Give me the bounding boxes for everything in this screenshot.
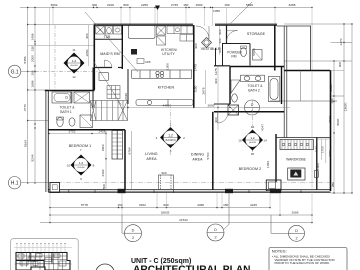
bottom wall piers [118, 189, 282, 193]
svg-text:3: 3 [170, 149, 172, 153]
maid block right wall [121, 25, 123, 69]
svg-text:1475: 1475 [194, 64, 198, 71]
svg-text:900: 900 [194, 43, 198, 48]
svg-text:1,2: 1,2 [72, 59, 77, 63]
svg-text:NOTES:: NOTES: [272, 249, 287, 254]
svg-text:1,2: 1,2 [79, 161, 84, 165]
svg-text:2735: 2735 [171, 3, 178, 7]
svg-text:1686: 1686 [31, 80, 35, 87]
svg-text:STORAGE: STORAGE [247, 32, 266, 36]
interior vertical dims mid [206, 67, 219, 131]
wardrobe dim lines [317, 139, 330, 163]
diagonal leader 1 [85, 12, 138, 72]
left outer wall lower [45, 91, 47, 193]
vestibule right dims [218, 29, 222, 52]
wardrobe dims [266, 145, 332, 170]
corridor cabinet [99, 73, 108, 81]
svg-text:8697: 8697 [336, 118, 340, 125]
storage door arc [227, 31, 238, 42]
svg-text:2770: 2770 [23, 104, 27, 111]
grid bubble G.1 [8, 65, 98, 77]
centerline through diamond4 [252, 100, 254, 155]
right nook box [314, 171, 318, 178]
vestibule [196, 26, 221, 51]
shower tb1 top [74, 92, 90, 103]
svg-text:5700: 5700 [206, 152, 210, 159]
svg-text:(6-6.00: (6-6.00 [78, 167, 86, 169]
maid tb wall [95, 38, 123, 40]
svg-text:1050: 1050 [213, 9, 220, 13]
svg-text:4047: 4047 [261, 124, 265, 131]
left dimension lines [28, 8, 93, 184]
key plan extension ticks [14, 243, 72, 264]
kitchen utility room [128, 26, 193, 64]
svg-text:D: D [132, 229, 135, 233]
svg-text:LIVING: LIVING [145, 152, 157, 156]
maid tb fixtures row [96, 26, 122, 34]
bedroom2 door arc [218, 113, 229, 124]
top dimension line [20, 7, 312, 9]
svg-text:(6-6.00: (6-6.00 [71, 65, 79, 67]
bottom dim row C [40, 222, 312, 224]
wardrobe right wall [316, 138, 318, 190]
bedroom2 corner column [266, 180, 281, 191]
corridor shelf grid [107, 86, 120, 99]
diamond callout 3 [67, 148, 95, 181]
interior dim line horizontal [90, 107, 290, 109]
svg-text:4460: 4460 [197, 203, 204, 207]
right wing inner wall [270, 26, 344, 138]
bottom outer wall with windows [48, 190, 330, 193]
section line extension [157, 10, 159, 25]
tb2 top wall [230, 66, 284, 68]
svg-text:2: 2 [132, 236, 134, 240]
vestibule entry arc [196, 26, 209, 39]
svg-text:900: 900 [218, 29, 222, 34]
svg-text:1453: 1453 [266, 161, 270, 168]
svg-text:AREA: AREA [146, 157, 157, 161]
svg-text:420: 420 [218, 38, 222, 43]
svg-text:3752: 3752 [69, 130, 76, 134]
right dimension lines [284, 24, 352, 193]
svg-text:MAID'S RM: MAID'S RM [100, 52, 120, 56]
svg-text:1300: 1300 [166, 63, 170, 70]
svg-text:900: 900 [338, 62, 342, 67]
top dimension texts [51, 3, 296, 13]
svg-text:600: 600 [218, 47, 222, 52]
fridge boxes [157, 26, 194, 45]
svg-text:1: 1 [170, 123, 172, 127]
bedroom1 top dim line [49, 133, 106, 135]
tb2 toilet [232, 94, 238, 102]
svg-text:5778: 5778 [81, 203, 88, 207]
svg-text:13: 13 [251, 125, 255, 129]
right rotated dimension texts [328, 38, 348, 187]
svg-text:1500: 1500 [196, 3, 203, 7]
living area label [145, 152, 157, 161]
section arrow top [155, 6, 160, 11]
diamond callout 1 [64, 48, 85, 79]
svg-text:150: 150 [223, 203, 228, 207]
svg-text:2494: 2494 [101, 169, 105, 176]
svg-text:900: 900 [214, 117, 218, 122]
section circle D3 [245, 100, 260, 115]
svg-text:14: 14 [263, 139, 267, 143]
bottom dim row A [50, 207, 270, 209]
svg-text:(6-6.00 6(: (6-6.00 6( [165, 139, 176, 142]
hall closets row [91, 101, 128, 121]
corridor left wall below maid [92, 68, 94, 108]
svg-text:800: 800 [123, 3, 128, 7]
kitchen counter with cooktop [132, 70, 192, 78]
svg-text:12: 12 [72, 75, 76, 79]
tb2 bottom wall [214, 103, 230, 105]
top extension drop lines [53, 8, 312, 71]
bottom extension lines [50, 71, 312, 224]
grid bubble H.1 [8, 177, 330, 189]
maid bed counter [128, 26, 155, 39]
svg-text:7: 7 [80, 148, 82, 152]
window mullions [69, 190, 301, 193]
diamond callout 4 [238, 125, 267, 156]
svg-text:1175: 1175 [214, 68, 218, 75]
section circle D2 mid [207, 193, 229, 241]
svg-text:15: 15 [251, 152, 255, 156]
vestibule diamond marker [202, 38, 212, 48]
ac box [137, 59, 144, 64]
svg-text:2: 2 [183, 136, 185, 140]
svg-text:WARDROBE: WARDROBE [286, 157, 307, 161]
dark appliance box [131, 49, 137, 55]
svg-text:2675: 2675 [202, 87, 206, 94]
svg-text:AREA: AREA [192, 157, 203, 161]
wardrobe top wall [276, 137, 331, 139]
notes box [269, 247, 347, 270]
svg-text:1150: 1150 [194, 85, 198, 92]
section circle D2 left [122, 215, 142, 242]
svg-text:ARCHITECTURAL PLAN: ARCHITECTURAL PLAN [133, 265, 251, 270]
svg-text:3285: 3285 [289, 3, 296, 7]
bedroom2 top wall [214, 111, 284, 113]
key plan box [11, 239, 347, 270]
kitchen vestibule wall [193, 25, 195, 108]
powder left wall [222, 44, 224, 66]
diagonal leader 2 [94, 62, 121, 105]
key plan mini floorplan [16, 253, 70, 270]
interior dim texts [163, 103, 215, 107]
right dimension ticks [333, 23, 352, 193]
storage right wall [274, 25, 276, 71]
maid room bottom wall [94, 67, 113, 69]
svg-text:11: 11 [72, 48, 75, 52]
svg-text:KITCHEN: KITCHEN [158, 85, 175, 89]
svg-text:STOR: STOR [252, 48, 256, 56]
section circle D2 right [271, 215, 305, 241]
tb1 bedroom1 wall [48, 129, 125, 131]
svg-text:4400: 4400 [163, 103, 170, 107]
svg-text:UTILITY: UTILITY [162, 52, 175, 56]
svg-text:4: 4 [156, 136, 158, 140]
storage wall extension [226, 8, 228, 25]
left dim line y45.7 [28, 45, 94, 47]
svg-text:1700: 1700 [321, 146, 325, 153]
svg-text:900: 900 [214, 78, 218, 83]
bedroom1 living wall [124, 130, 126, 190]
dining area label [191, 152, 204, 161]
powder toilet [241, 48, 247, 57]
terrace right wall [310, 26, 312, 71]
maid door arc [105, 60, 113, 68]
tb2 corner shaft [228, 105, 239, 115]
svg-text:2695: 2695 [208, 103, 215, 107]
svg-text:D: D [214, 228, 217, 232]
left wall centerline [54, 25, 56, 90]
svg-text:150: 150 [31, 46, 35, 51]
svg-text:8164: 8164 [24, 140, 28, 147]
top dimension ticks [52, 7, 312, 9]
svg-text:BATH 1: BATH 1 [60, 110, 72, 114]
svg-text:BATH 2: BATH 2 [248, 88, 260, 92]
svg-text:RM: RM [231, 55, 236, 59]
powder room [222, 44, 262, 66]
svg-text:21520: 21520 [179, 218, 188, 222]
toilet tb1 [57, 117, 63, 126]
svg-text:10: 10 [67, 164, 71, 168]
svg-text:1426: 1426 [99, 130, 106, 134]
svg-text:300: 300 [92, 3, 97, 7]
bottom dim row B [50, 214, 312, 216]
toilet bath1 top wall [45, 90, 95, 92]
svg-text:D: D [295, 229, 298, 233]
terrace top wall [277, 25, 311, 27]
left dimension ticks [27, 7, 36, 184]
svg-text:2000: 2000 [31, 55, 35, 62]
powder basin box [253, 50, 263, 61]
svg-text:PRIOR TO THE EXECUTION OF WORK: PRIOR TO THE EXECUTION OF WORK. [275, 261, 331, 265]
svg-text:2250: 2250 [141, 3, 148, 7]
corner column bl [50, 183, 60, 193]
kitchen left wall [127, 69, 129, 104]
centerline through diamond2 [170, 104, 172, 155]
bedroom1 closet hatched [112, 131, 123, 160]
svg-text:150: 150 [183, 3, 188, 7]
svg-text:DINING: DINING [191, 152, 204, 156]
vestibule corridor wall [214, 65, 230, 67]
svg-text:1,2: 1,2 [250, 136, 255, 140]
svg-text:2: 2 [214, 236, 216, 240]
svg-text:950: 950 [331, 182, 335, 187]
kitchen island [136, 100, 193, 106]
svg-text:9: 9 [80, 177, 82, 181]
tb2 left wall [229, 67, 231, 105]
svg-text:16: 16 [238, 139, 242, 143]
svg-text:6764: 6764 [128, 147, 132, 154]
svg-text:13620: 13620 [344, 102, 348, 111]
svg-text:5456: 5456 [23, 56, 27, 63]
title bubble circle [96, 264, 115, 270]
left rotated dimension texts [23, 33, 35, 161]
svg-text:900: 900 [161, 171, 166, 175]
maid block left dims [88, 25, 90, 66]
wardrobe left wall [275, 134, 277, 182]
svg-text:(6-6.00: (6-6.00 [249, 142, 257, 144]
svg-text:5690: 5690 [246, 3, 253, 7]
svg-text:BEDROOM 2: BEDROOM 2 [239, 167, 261, 171]
svg-text:900: 900 [85, 33, 89, 38]
tb2 right wall [281, 67, 283, 105]
svg-text:1496: 1496 [31, 33, 35, 40]
shower tb1 [80, 115, 93, 128]
svg-text:2: 2 [295, 236, 297, 240]
svg-text:2600: 2600 [101, 144, 105, 151]
tb2 shower [231, 80, 240, 93]
svg-text:2436: 2436 [124, 93, 128, 100]
left wall extension line [49, 8, 51, 91]
svg-text:3602: 3602 [51, 3, 58, 7]
svg-text:1,2: 1,2 [168, 133, 173, 137]
tub tb1 [52, 92, 72, 103]
bidet tb1 [69, 118, 75, 126]
svg-text:150: 150 [31, 70, 35, 75]
svg-text:H.1: H.1 [11, 181, 19, 187]
svg-text:4245: 4245 [250, 203, 257, 207]
svg-text:1300: 1300 [316, 163, 320, 170]
svg-text:2106: 2106 [107, 3, 114, 7]
storage door diag [228, 2, 252, 26]
svg-text:G.1: G.1 [11, 69, 19, 75]
svg-text:3150: 3150 [328, 150, 332, 157]
svg-text:900: 900 [163, 203, 168, 207]
svg-text:5244: 5244 [31, 154, 35, 161]
svg-text:500: 500 [102, 184, 106, 189]
svg-text:1470: 1470 [339, 38, 343, 45]
diamond callout 2 [156, 123, 186, 153]
svg-text:3152: 3152 [139, 203, 146, 207]
balcony door recess [158, 175, 173, 190]
tv cabinet [288, 168, 305, 180]
svg-text:AFB: AFB [145, 60, 151, 64]
svg-text:2686: 2686 [292, 211, 299, 215]
right outer wall [284, 71, 331, 192]
svg-text:D: D [251, 103, 254, 107]
svg-text:1150: 1150 [315, 145, 319, 152]
vestibule storage wall [226, 25, 228, 44]
svg-text:1050: 1050 [85, 49, 89, 56]
wardrobe hatched cabinet [280, 140, 314, 150]
tb2 vanity [241, 75, 265, 81]
bedroom1 interior dim [105, 131, 131, 189]
toilet bath 1 [52, 92, 93, 128]
svg-text:18835: 18835 [161, 211, 170, 215]
svg-text:8: 8 [93, 164, 95, 168]
outer wall top (maid block to storage) [94, 24, 278, 90]
tb2 tub [268, 77, 280, 102]
svg-text:150: 150 [224, 3, 229, 7]
bedroom2 left wall [212, 112, 214, 190]
